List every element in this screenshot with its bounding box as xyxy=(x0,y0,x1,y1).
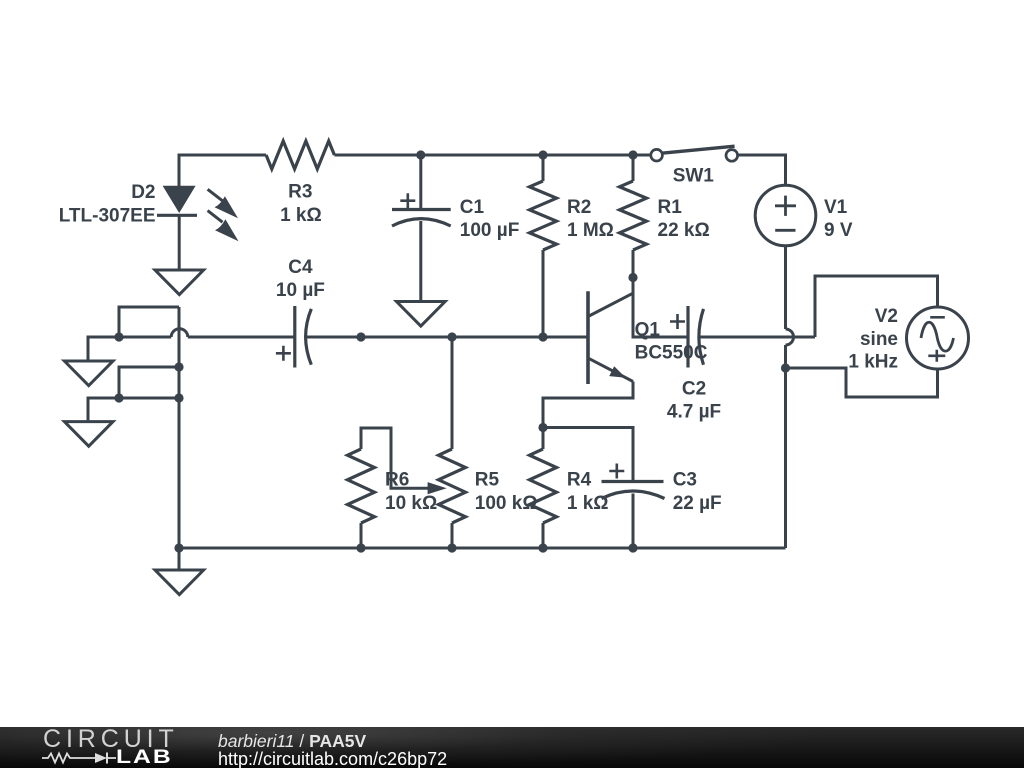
resistor R3 xyxy=(266,141,334,169)
svg-text:R2: R2 xyxy=(567,197,591,218)
capacitor C3 xyxy=(602,464,665,499)
capacitor C2 xyxy=(670,306,704,368)
svg-text:R1: R1 xyxy=(658,197,683,218)
wire V2 bottom path xyxy=(786,368,938,397)
svg-text:sine: sine xyxy=(860,329,898,350)
svg-text:R4: R4 xyxy=(567,470,592,491)
capacitor C4 xyxy=(276,306,311,368)
svg-text:D2: D2 xyxy=(131,182,155,203)
wire left column vertical xyxy=(178,307,181,548)
svg-text:1 kΩ: 1 kΩ xyxy=(567,493,609,514)
ground under C1 xyxy=(397,302,446,327)
wire collector node down to C2 xyxy=(633,278,687,338)
wire mid-rail to ground branch 1 xyxy=(88,337,119,361)
resistor R5 potentiometer xyxy=(451,337,454,449)
transistor Q1 xyxy=(588,291,633,384)
svg-text:C1: C1 xyxy=(460,197,485,218)
svg-text:R6: R6 xyxy=(385,470,409,491)
svg-text:SW1: SW1 xyxy=(673,166,715,187)
LED D2 xyxy=(157,186,239,242)
svg-text:1 kΩ: 1 kΩ xyxy=(280,205,322,226)
svg-text:22 kΩ: 22 kΩ xyxy=(658,220,710,241)
svg-text:V1: V1 xyxy=(824,197,848,218)
resistor R1 xyxy=(632,155,635,181)
svg-text:4.7 µF: 4.7 µF xyxy=(667,401,721,422)
wire R6 wiper to R5 xyxy=(361,428,429,488)
switch SW1 xyxy=(651,146,738,161)
wire V1 bottom with hop over mid wire xyxy=(784,246,787,329)
ground under D2 xyxy=(155,270,204,295)
svg-text:10 µF: 10 µF xyxy=(276,280,325,301)
resistor R4 xyxy=(542,428,545,450)
svg-text:C2: C2 xyxy=(682,378,706,399)
svg-text:LTL-307EE: LTL-307EE xyxy=(59,205,156,226)
wire emitter to R4 node xyxy=(543,382,633,428)
resistor R2 xyxy=(542,155,545,181)
capacitor C1 xyxy=(392,193,451,226)
svg-text:1 kHz: 1 kHz xyxy=(848,352,898,373)
footer bar xyxy=(0,727,1024,768)
svg-text:100 µF: 100 µF xyxy=(460,220,520,241)
voltage source V1 xyxy=(755,185,816,246)
wire C3 to bottom rail xyxy=(632,494,635,549)
voltage source V2 xyxy=(907,307,969,369)
svg-text:C3: C3 xyxy=(673,470,697,491)
svg-text:C4: C4 xyxy=(288,257,313,278)
svg-text:V2: V2 xyxy=(875,306,898,327)
wire bottom rail xyxy=(179,547,786,550)
resistor R6 xyxy=(348,449,375,523)
wire bottom rail to ground xyxy=(178,548,181,570)
wire mid rail with hop over left column xyxy=(119,336,171,339)
svg-text:R3: R3 xyxy=(288,182,312,203)
svg-text:9 V: 9 V xyxy=(824,220,853,241)
wire R4 node to C3 xyxy=(543,428,633,482)
svg-text:1 MΩ: 1 MΩ xyxy=(567,220,614,241)
wire loop rectangle 1 xyxy=(119,307,179,337)
svg-text:R5: R5 xyxy=(475,470,500,491)
wire top rail left from LED to R3 xyxy=(179,155,266,187)
svg-text:BC550C: BC550C xyxy=(635,342,708,363)
wire C1 drop xyxy=(419,155,422,210)
CircuitLab logo xyxy=(43,727,179,752)
wire to ground branch 2 xyxy=(88,398,119,422)
wire C2 to V2 top path xyxy=(700,336,815,339)
wire LED cathode to ground xyxy=(178,215,181,270)
wire top rail from R3 to switch xyxy=(334,154,651,157)
svg-text:10 kΩ: 10 kΩ xyxy=(385,493,437,514)
ground left 2 xyxy=(64,422,113,447)
wire switch to V1 xyxy=(738,155,786,185)
wire mid rail C4 to Q1 base xyxy=(305,336,587,339)
ground left 1 xyxy=(64,361,113,386)
ground bottom xyxy=(155,570,204,595)
svg-text:22 µF: 22 µF xyxy=(673,493,722,514)
wire C1 to ground xyxy=(419,221,422,302)
wire loop rectangle 2 xyxy=(119,367,179,398)
